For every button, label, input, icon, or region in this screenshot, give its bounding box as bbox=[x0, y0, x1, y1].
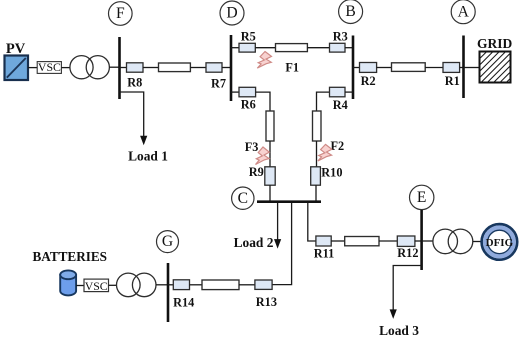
svg-text:R10: R10 bbox=[321, 166, 342, 180]
svg-text:B: B bbox=[345, 3, 355, 20]
wire R3 to bus B bbox=[345, 47, 353, 49]
line impedance C-E bbox=[345, 237, 379, 246]
svg-text:R14: R14 bbox=[173, 295, 194, 309]
wire R11 to line CE bbox=[331, 240, 345, 242]
wire battery to VSC bbox=[76, 285, 84, 287]
bus D bbox=[230, 35, 233, 101]
line impedance D-C (vertical) bbox=[266, 111, 274, 141]
svg-text:G: G bbox=[162, 233, 173, 250]
PV source PV bbox=[5, 41, 29, 80]
svg-text:R12: R12 bbox=[397, 246, 418, 260]
line impedance B-A bbox=[392, 63, 426, 72]
wire R6 to vertical line (corner) bbox=[256, 92, 270, 111]
wire PV to VSC bbox=[28, 67, 37, 69]
svg-text:Load 1: Load 1 bbox=[128, 148, 168, 163]
wire bus F to R8 bbox=[120, 67, 128, 69]
wire R4 to vertical line (corner) bbox=[317, 92, 330, 111]
svg-text:R8: R8 bbox=[127, 75, 142, 89]
transformer T1 (PV) bbox=[70, 56, 110, 79]
bus E bbox=[420, 210, 423, 270]
relay R11 bbox=[314, 236, 335, 261]
converter VSC (PV) bbox=[37, 60, 61, 74]
fault F3 bbox=[245, 140, 269, 165]
line impedance D-B bbox=[276, 44, 308, 52]
wire bus D to R5 bbox=[231, 47, 239, 49]
line impedance F-D bbox=[159, 63, 191, 72]
svg-text:VSC: VSC bbox=[38, 60, 61, 74]
wire R1 to bus A bbox=[460, 67, 464, 69]
svg-text:R11: R11 bbox=[314, 247, 335, 261]
relay R12 bbox=[397, 236, 418, 260]
fault F1 bbox=[257, 52, 299, 75]
line impedance B-C (vertical) bbox=[313, 111, 322, 141]
relay R7 bbox=[206, 63, 226, 91]
generator DFIG bbox=[482, 224, 518, 260]
wire transformer T2 to DFIG bbox=[473, 241, 482, 243]
svg-text:C: C bbox=[238, 190, 248, 207]
relay R10 bbox=[311, 166, 343, 186]
wire line CE to R12 bbox=[379, 240, 397, 242]
svg-text:F: F bbox=[116, 5, 125, 22]
wire bus D to R6 bbox=[231, 91, 239, 93]
svg-text:F2: F2 bbox=[331, 139, 345, 153]
svg-text:F3: F3 bbox=[245, 140, 259, 154]
svg-text:R7: R7 bbox=[211, 76, 226, 90]
relay R2 bbox=[360, 63, 377, 89]
node F bbox=[109, 2, 133, 26]
node G bbox=[157, 231, 179, 253]
svg-text:R2: R2 bbox=[361, 74, 376, 88]
wire VSC to transformer T3 bbox=[109, 284, 117, 286]
wire R7 to bus D bbox=[222, 67, 231, 69]
load 1 branch wire bbox=[120, 92, 144, 137]
wire transformer T3 to bus G bbox=[156, 284, 168, 286]
svg-text:R3: R3 bbox=[333, 29, 348, 43]
node D bbox=[220, 1, 244, 25]
svg-text:DFIG: DFIG bbox=[486, 237, 514, 249]
wire line DB to R3 bbox=[307, 47, 329, 49]
wire R2 to line BA bbox=[377, 67, 392, 69]
svg-text:R6: R6 bbox=[241, 97, 256, 111]
svg-text:E: E bbox=[417, 189, 427, 206]
battery source BATTERIES bbox=[33, 249, 108, 295]
load 2 branch wire bbox=[277, 203, 279, 240]
wire bus A to GRID bbox=[464, 67, 480, 69]
relay R3 bbox=[330, 29, 348, 52]
wire R9 to bus C bbox=[269, 185, 271, 202]
load 2 arrow bbox=[274, 239, 281, 249]
node B bbox=[339, 0, 363, 24]
wire R14 to line GC bbox=[190, 284, 203, 286]
bus C bbox=[257, 200, 321, 203]
transformer T2 (DFIG) bbox=[433, 229, 473, 254]
wire bus G to R14 bbox=[168, 284, 173, 286]
wire line BC to R10 bbox=[316, 141, 318, 167]
wire line DC to R9 bbox=[269, 141, 271, 167]
load 3 arrow bbox=[390, 309, 397, 319]
fault F2 bbox=[318, 139, 344, 161]
relay R1 bbox=[443, 63, 460, 89]
load 3 branch wire bbox=[393, 266, 421, 311]
wire bus E to transformer T2 bbox=[422, 240, 433, 242]
relay R5 bbox=[239, 29, 256, 52]
load 1 arrow bbox=[140, 136, 147, 146]
relay R8 bbox=[127, 63, 144, 90]
bus F bbox=[118, 37, 121, 99]
svg-text:VSC: VSC bbox=[85, 279, 108, 293]
relay R4 bbox=[330, 87, 348, 112]
svg-text:R1: R1 bbox=[445, 74, 460, 88]
svg-text:Load 3: Load 3 bbox=[379, 323, 419, 338]
svg-text:R4: R4 bbox=[333, 98, 348, 112]
wire R10 to bus C bbox=[315, 185, 317, 202]
transformer T3 (battery) bbox=[117, 273, 157, 297]
line impedance G-C bbox=[202, 280, 239, 290]
wire bus C to R11 branch bbox=[308, 203, 316, 241]
wire line BA to R1 bbox=[425, 67, 443, 69]
svg-text:R9: R9 bbox=[249, 165, 264, 179]
wire line GC to R13 bbox=[239, 284, 255, 286]
wire R4 to bus B bbox=[345, 91, 353, 93]
wire R8 to line FD bbox=[143, 67, 159, 69]
wire bus B to R2 bbox=[353, 67, 360, 69]
node A bbox=[451, 0, 475, 24]
wire bus C to R13 branch bbox=[272, 203, 292, 285]
svg-text:R5: R5 bbox=[241, 29, 256, 43]
relay R6 bbox=[239, 87, 256, 111]
node E bbox=[410, 185, 434, 209]
bus B bbox=[352, 36, 355, 100]
wire line FD to R7 bbox=[190, 67, 206, 69]
relay R9 bbox=[249, 165, 275, 185]
wire transformer T1 to bus F bbox=[109, 66, 119, 68]
svg-text:Load 2: Load 2 bbox=[234, 235, 274, 250]
svg-text:BATTERIES: BATTERIES bbox=[33, 249, 108, 264]
bus A bbox=[462, 36, 465, 99]
external grid GRID bbox=[446, 36, 520, 86]
relay R13 bbox=[255, 280, 277, 309]
svg-text:F1: F1 bbox=[285, 60, 299, 74]
svg-text:A: A bbox=[458, 3, 470, 20]
wire VSC to transformer T1 bbox=[61, 67, 70, 69]
converter VSC (battery) bbox=[84, 279, 109, 293]
relay R14 bbox=[173, 280, 194, 310]
wire R5 to line DB bbox=[255, 47, 275, 49]
node C bbox=[232, 187, 254, 209]
svg-text:D: D bbox=[226, 5, 237, 22]
svg-text:R13: R13 bbox=[256, 295, 277, 309]
bus G bbox=[167, 263, 170, 322]
svg-text:GRID: GRID bbox=[477, 36, 513, 51]
wire R12 to bus E bbox=[415, 240, 422, 242]
